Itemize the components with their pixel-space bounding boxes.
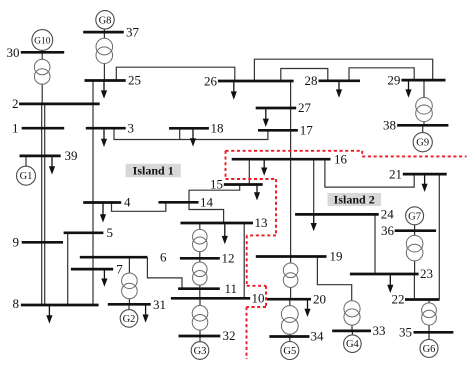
- load arrow bus 8: [46, 305, 52, 324]
- load arrow bus 24: [311, 214, 317, 231]
- wire line 23-24: [374, 214, 376, 274]
- load arrow bus 23: [387, 274, 393, 293]
- wire line 16-21: [325, 159, 414, 187]
- svg-text:16: 16: [334, 151, 348, 166]
- bus 5: [64, 231, 104, 234]
- svg-text:31: 31: [153, 297, 166, 312]
- transformer T6-31: [122, 273, 138, 299]
- wire bus 29 to transformer T29-38: [423, 80, 425, 98]
- bus 23: [350, 273, 419, 276]
- bus 18: [169, 127, 209, 130]
- svg-text:3: 3: [128, 120, 135, 135]
- bus 31: [108, 303, 151, 306]
- wire line 16-24: [313, 159, 315, 214]
- transformer T23-36: [406, 235, 423, 261]
- svg-text:12: 12: [222, 251, 235, 266]
- transformer T12-11: [193, 262, 208, 285]
- wire line 14-13: [189, 202, 224, 223]
- wire line 28-29: [349, 68, 414, 81]
- load arrow bus 25: [101, 81, 107, 99]
- generator G6: [420, 339, 438, 357]
- svg-text:28: 28: [305, 73, 318, 88]
- bus 25: [85, 79, 126, 82]
- svg-text:32: 32: [223, 328, 236, 343]
- wire bus 20 to transformer T20-34: [289, 299, 291, 305]
- generator G2: [120, 310, 138, 328]
- wire bus 33 to G4: [351, 331, 353, 335]
- svg-text:39: 39: [65, 148, 78, 163]
- wire line 26-27-17-16-19: [290, 81, 292, 257]
- bus 35: [414, 331, 454, 334]
- bus 32: [179, 335, 221, 338]
- load arrow bus 18: [190, 128, 196, 146]
- svg-text:29: 29: [387, 72, 400, 87]
- bus 33: [332, 330, 371, 333]
- load arrow bus 21: [422, 174, 428, 192]
- wire bus 31 to G2: [128, 304, 130, 309]
- bus 8: [21, 304, 99, 307]
- load arrow bus 29: [405, 80, 411, 98]
- transformer T30-2: [34, 59, 50, 84]
- svg-text:G10: G10: [34, 37, 51, 47]
- island boundary horizontal above bus 15: [226, 178, 277, 180]
- load arrow bus 15: [254, 185, 260, 201]
- island boundary step down: [361, 151, 363, 157]
- wire transformer T6-31 to bus 31: [128, 299, 130, 305]
- wire line 22-23: [413, 274, 415, 300]
- wire transformer T12-11 to bus 11: [199, 285, 201, 289]
- svg-text:38: 38: [383, 118, 396, 133]
- bus 22: [405, 298, 440, 301]
- svg-text:33: 33: [373, 323, 386, 338]
- svg-text:G7: G7: [408, 211, 421, 222]
- svg-text:G5: G5: [283, 346, 296, 357]
- bus 10: [171, 297, 250, 300]
- wire bus 10 to transformer T10-32: [199, 298, 201, 305]
- wire line 2-1-39-9-8 circuit A: [41, 104, 43, 305]
- wire bus 34 to G5: [289, 337, 291, 342]
- svg-text:11: 11: [225, 281, 238, 296]
- bus 9: [22, 241, 63, 244]
- wire transformer T20-34 to bus 34: [289, 334, 291, 337]
- wire bus 6 to transformer T6-31: [128, 257, 130, 273]
- svg-text:19: 19: [330, 249, 343, 264]
- load arrow bus 20: [304, 299, 310, 317]
- wire line 25-2-3-4-5-6-7-8: [92, 81, 94, 306]
- load arrow bus 7: [101, 269, 107, 287]
- svg-text:15: 15: [210, 177, 223, 192]
- wire line 3-18-17: [114, 128, 268, 139]
- wire line 15-16: [248, 159, 250, 184]
- bus 11: [178, 287, 220, 290]
- svg-text:13: 13: [255, 215, 268, 230]
- wire transformer T22-35 to bus 35: [428, 325, 430, 332]
- wire transformer T30-2 to bus 2: [41, 84, 43, 104]
- svg-text:17: 17: [300, 123, 314, 138]
- svg-text:4: 4: [124, 195, 131, 210]
- svg-text:6: 6: [160, 250, 167, 265]
- island boundary jog right upper: [247, 285, 266, 287]
- svg-text:30: 30: [7, 45, 20, 60]
- bus 1: [22, 127, 64, 130]
- wire transformer T29-38 to bus 38: [423, 121, 425, 125]
- bus 14: [158, 201, 198, 204]
- svg-text:G3: G3: [194, 346, 207, 357]
- svg-text:26: 26: [204, 74, 218, 89]
- transformer T19-33: [344, 301, 360, 325]
- generator G7: [406, 207, 424, 225]
- svg-text:1: 1: [12, 120, 19, 135]
- wire bus 35 to G6: [428, 332, 430, 339]
- svg-text:G2: G2: [123, 314, 136, 325]
- load arrow bus 27: [263, 108, 269, 127]
- wire line 15-14: [189, 185, 240, 203]
- wire G1 to bus 39: [25, 156, 27, 166]
- wire bus 37 to transformer T37-25: [103, 32, 105, 38]
- bus 6: [80, 256, 148, 259]
- load arrow bus 26: [231, 81, 237, 100]
- bus 16: [232, 158, 331, 161]
- bus 17: [258, 129, 298, 132]
- generator G4: [344, 335, 362, 353]
- svg-text:G8: G8: [99, 15, 112, 26]
- svg-text:Island 2: Island 2: [334, 192, 375, 206]
- bus 7: [71, 268, 113, 271]
- bus 4: [83, 201, 121, 204]
- island boundary vertical right of bus 10 label: [265, 286, 267, 307]
- island boundary segment top-left horizontal: [226, 150, 363, 152]
- bus 39: [20, 155, 61, 158]
- island boundary top-right horizontal: [362, 155, 466, 157]
- wire transformer T19-33 to bus 33: [351, 325, 353, 331]
- transformer T37-25: [96, 38, 113, 63]
- bus 12: [180, 257, 220, 260]
- svg-text:7: 7: [116, 261, 123, 276]
- svg-text:5: 5: [107, 225, 114, 240]
- svg-text:8: 8: [13, 296, 20, 311]
- svg-text:G4: G4: [346, 339, 360, 350]
- wire line 25-26: [116, 67, 235, 81]
- island boundary left vertical: [225, 151, 227, 179]
- bus 27: [256, 107, 297, 110]
- wire line 26-28: [281, 69, 328, 82]
- wire bus 19 to transformer T19-20: [290, 257, 292, 264]
- transformer T22-35: [422, 303, 437, 325]
- bus 2: [19, 103, 100, 106]
- transformer T10-32: [192, 306, 208, 331]
- wire transformer T13-12 to bus 12: [199, 252, 201, 259]
- load arrow bus 3: [101, 128, 107, 147]
- svg-text:25: 25: [128, 73, 141, 88]
- svg-text:14: 14: [200, 195, 214, 210]
- bus 37: [83, 31, 124, 34]
- svg-text:2: 2: [12, 96, 19, 111]
- svg-text:37: 37: [126, 24, 140, 39]
- transformer T13-12: [193, 229, 208, 251]
- island boundary horizontal above bus 13 label: [247, 234, 276, 236]
- wire bus 12 to transformer T12-11: [199, 258, 201, 262]
- svg-text:21: 21: [389, 166, 402, 181]
- generator G10: [32, 30, 53, 51]
- wire G10 to bus 30: [41, 51, 43, 52]
- svg-text:23: 23: [420, 266, 433, 281]
- bus 21: [403, 173, 447, 176]
- svg-text:22: 22: [392, 292, 405, 307]
- bus 24: [295, 213, 379, 216]
- wire bus 30 to transformer T30-2: [41, 52, 43, 59]
- transformer T19-20: [283, 263, 298, 287]
- bus 34: [269, 335, 309, 338]
- svg-text:34: 34: [311, 329, 325, 344]
- svg-text:24: 24: [381, 207, 395, 222]
- load arrow bus 39: [49, 156, 55, 175]
- transformer T20-34: [281, 306, 298, 335]
- bus 28: [319, 79, 361, 82]
- wire line 5-8: [67, 233, 69, 305]
- svg-text:G1: G1: [20, 171, 33, 182]
- wire line 6-11: [147, 257, 182, 289]
- wire line 13-10: [243, 223, 245, 298]
- transformer T29-38: [416, 98, 433, 122]
- svg-text:G9: G9: [416, 138, 429, 149]
- wire transformer T23-36 to bus 23: [414, 261, 416, 274]
- island boundary jog left lower: [247, 306, 267, 308]
- bus 3: [86, 127, 126, 130]
- wire line 2-1-39-9-8 circuit B: [44, 104, 46, 305]
- wire bus 32 to G3: [199, 336, 201, 342]
- load arrow bus 16: [261, 159, 267, 176]
- wire bus 38 to G9: [422, 125, 424, 132]
- bus 19: [256, 255, 327, 258]
- svg-text:20: 20: [313, 291, 326, 306]
- bus 13: [181, 222, 254, 225]
- wire transformer T19-20 to bus 20: [290, 287, 292, 299]
- load arrow bus 13: [222, 223, 228, 244]
- load arrow bus 4: [100, 203, 106, 223]
- bus 20: [267, 298, 311, 301]
- svg-text:27: 27: [298, 100, 312, 115]
- generator G5: [281, 342, 299, 360]
- wire transformer T37-25 to bus 25: [103, 63, 105, 80]
- generator G3: [191, 342, 209, 360]
- svg-text:Island 1: Island 1: [133, 163, 174, 177]
- island boundary vertical left of line 13-10: [246, 235, 248, 285]
- island boundary vertical right of bus 15: [275, 179, 277, 235]
- wire transformer T10-32 to bus 32: [199, 330, 201, 336]
- wire line 19-33: [317, 257, 351, 301]
- wire line 11-10: [199, 289, 201, 299]
- load arrow bus 28: [336, 81, 342, 98]
- wire bus 36 to transformer T23-36: [414, 231, 416, 236]
- generator G9: [413, 133, 432, 152]
- wire line 21-22: [438, 174, 440, 299]
- svg-text:9: 9: [13, 235, 20, 250]
- bus 38: [397, 124, 448, 127]
- bus 36: [395, 229, 436, 232]
- svg-text:18: 18: [211, 121, 224, 136]
- bus 15: [224, 183, 263, 186]
- wire G7 to bus 36: [414, 225, 416, 231]
- island boundary bottom vertical: [246, 307, 248, 359]
- wire line 4-14: [112, 202, 166, 211]
- bus 30: [21, 51, 64, 54]
- svg-text:35: 35: [399, 325, 412, 340]
- wire line 26-29: [254, 59, 432, 81]
- svg-text:36: 36: [381, 223, 395, 238]
- svg-text:10: 10: [252, 291, 265, 306]
- bus 29: [401, 79, 445, 82]
- wire bus 22 to transformer T22-35: [428, 300, 430, 303]
- generator G1: [17, 166, 36, 185]
- wire G8 to bus 37: [103, 29, 105, 32]
- node Island 1 label: [126, 163, 181, 177]
- generator G8: [96, 11, 114, 29]
- wire riser to bus 18: [179, 128, 181, 139]
- wire bus 13 to transformer T13-12: [199, 223, 201, 229]
- node Island 2 label: [328, 192, 382, 206]
- svg-text:G6: G6: [423, 344, 436, 355]
- load arrow bus 31: [143, 304, 149, 323]
- bus 26: [218, 80, 294, 83]
